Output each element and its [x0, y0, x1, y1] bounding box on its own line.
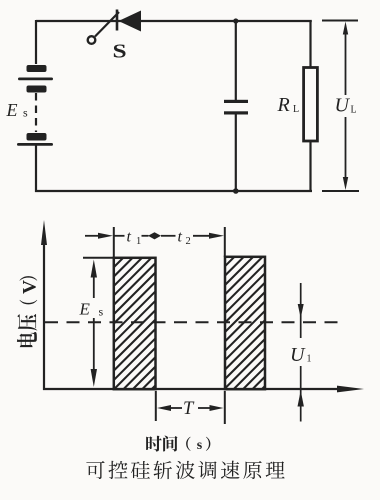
T dimension left arrow [157, 405, 171, 411]
U_1 dimension arrow down (to dashed line) [300, 283, 302, 338]
svg-text:L: L [293, 104, 299, 115]
battery cell plate 3 (short thick) [27, 86, 47, 93]
extension tick pulse2 left edge [224, 227, 226, 257]
battery cell plate 1 (short thick) [27, 65, 47, 72]
svg-text:E: E [6, 100, 18, 120]
dashed average voltage level line [45, 321, 340, 323]
E_S dimension arrow down [93, 318, 95, 378]
capacitor C plate bottom [224, 111, 248, 114]
node dot bottom (capacitor junction) [233, 188, 239, 194]
label S (switch) [112, 40, 126, 62]
node dot top (capacitor junction) [233, 18, 238, 23]
wire bottom [35, 190, 312, 192]
T dimension right arrow [198, 407, 212, 409]
axis label （ [186, 437, 190, 451]
x-axis (time) [43, 388, 342, 390]
extension tick pulse1 left edge [113, 227, 115, 258]
wire left lower (battery to bottom) [35, 144, 37, 192]
t2 dimension line left [161, 235, 176, 237]
svg-text:t: t [127, 229, 132, 246]
pulse 2 outline [225, 257, 265, 389]
svg-text:t: t [178, 229, 183, 246]
svg-text:U: U [290, 344, 306, 366]
extension tick pulse1 right edge below axis [155, 391, 157, 421]
t1/t2 shared diamond arrowheads [142, 235, 149, 237]
battery cell plate 5 (long thin) [17, 143, 53, 146]
svg-text:U: U [335, 95, 351, 117]
wire capacitor upper [235, 21, 237, 100]
pulse 1 outline [114, 258, 156, 389]
svg-text:s: s [23, 106, 28, 120]
E_S extension bar left of pulse 1 [83, 257, 114, 259]
switch contact circle [88, 36, 96, 44]
t2 dimension right arrow [193, 235, 211, 237]
battery cell plate 4 (short thick) [27, 133, 47, 141]
svg-text:V: V [20, 280, 41, 294]
capacitor C plate top [224, 100, 248, 103]
wire capacitor lower [235, 115, 237, 192]
thyristor cathode bar [116, 10, 119, 31]
U_L dimension top bar [322, 20, 358, 22]
t1 dimension left arrow [85, 235, 101, 237]
svg-text:R: R [277, 94, 290, 116]
svg-text:1: 1 [307, 354, 312, 365]
t1 dimension line [114, 235, 125, 237]
U_L dimension arrow down [345, 117, 347, 182]
svg-text:2: 2 [186, 236, 191, 247]
U_L dimension arrow up [345, 30, 347, 95]
wire left upper (battery to top) [35, 20, 37, 64]
switch lever [95, 12, 119, 37]
axis label ） [206, 437, 210, 451]
svg-text:L: L [351, 105, 357, 116]
axis label 间 [163, 435, 177, 451]
thyristor triangle (pointing left) [119, 11, 142, 32]
wire top [36, 20, 312, 22]
resistor R_L body [304, 68, 318, 142]
svg-text:S: S [112, 40, 126, 62]
axis label 时 (time) [146, 436, 162, 452]
svg-text:s: s [99, 305, 104, 319]
svg-text:T: T [183, 399, 195, 419]
caption 可控硅斩波调速原理 [86, 461, 284, 480]
extension tick pulse2 left edge below axis [224, 391, 226, 424]
wire resistor upper [309, 21, 311, 68]
y-axis (voltage) [43, 242, 45, 390]
svg-text:1: 1 [136, 236, 141, 247]
axis label 电压(V) rotated [17, 276, 41, 347]
wire resistor lower [309, 141, 311, 192]
U_1 dimension arrow up (to x-axis) [300, 366, 302, 422]
battery cell plate 2 (long thin) [18, 78, 53, 81]
svg-text:s: s [197, 438, 203, 453]
svg-text:E: E [79, 300, 91, 319]
battery dashed middle (cells continuation) [35, 93, 37, 132]
U_L dimension bottom bar [322, 190, 359, 192]
E_S dimension arrow up [93, 268, 95, 298]
